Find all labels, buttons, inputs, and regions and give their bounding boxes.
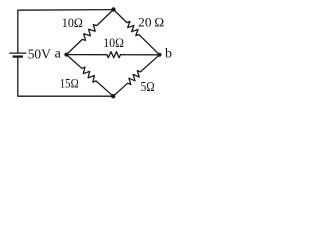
svg-text:10Ω: 10Ω [62, 16, 83, 30]
svg-text:20 Ω: 20 Ω [138, 16, 164, 30]
svg-text:5Ω: 5Ω [141, 79, 155, 94]
resistor R4 15 ohm (node a to bottom node) [66, 55, 113, 97]
junction dot: bottom node [111, 94, 115, 98]
svg-text:a: a [55, 47, 62, 62]
resistor R1 10 ohm (node a to top node) [66, 10, 113, 55]
battery 50V long positive plate [9, 52, 26, 54]
junction dot: node b [158, 53, 162, 57]
svg-text:15Ω: 15Ω [60, 77, 79, 91]
junction dot: top node [111, 7, 115, 11]
resistor R5 5 ohm (bottom node to node b) [113, 55, 159, 96]
resistor R2 20 ohm (top node to node b) [114, 10, 160, 55]
junction dot: node a [64, 53, 68, 57]
svg-text:10Ω: 10Ω [103, 36, 124, 50]
svg-text:50V: 50V [28, 47, 51, 62]
battery 50V short negative plate [13, 55, 23, 57]
wire: battery positive terminal up and right to top node [18, 10, 114, 53]
wire: battery negative terminal down and right to bottom node [18, 57, 113, 96]
resistor R3 10 ohm bridge (node a to node b) [66, 52, 159, 58]
svg-text:b: b [165, 47, 172, 62]
